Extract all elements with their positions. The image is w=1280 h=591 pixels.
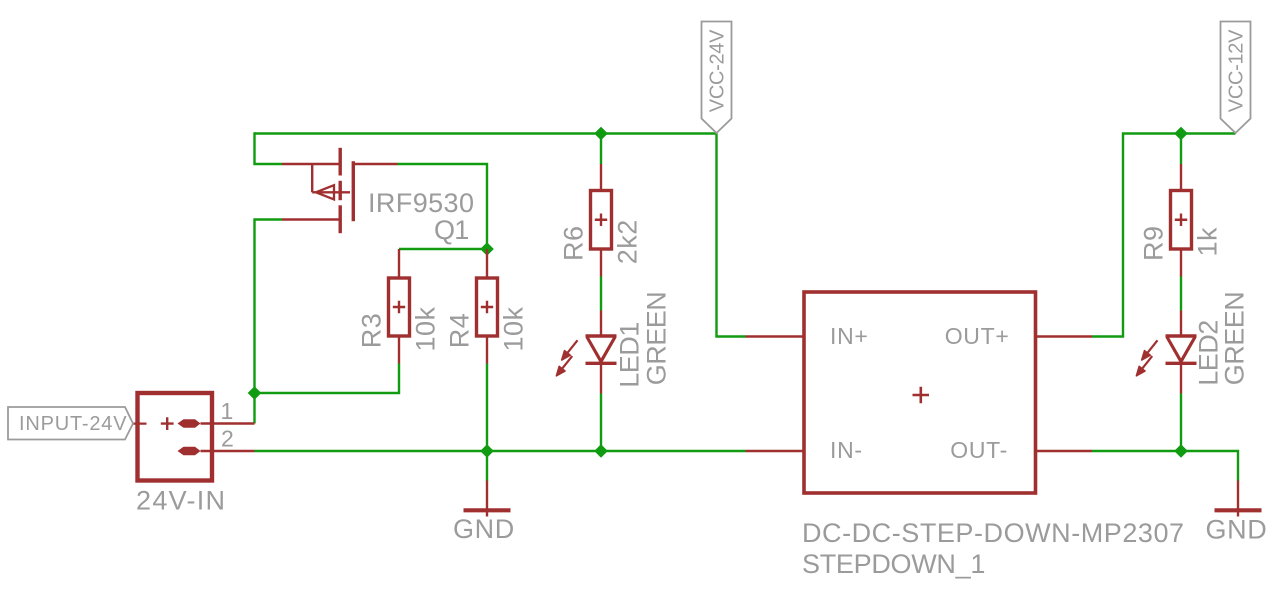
LED LED2 symbol xyxy=(1166,336,1197,363)
resistor R9 bottom pin lead xyxy=(1180,249,1182,277)
resistor R3 bottom pin lead xyxy=(398,336,400,364)
module pin IN- lead xyxy=(746,450,805,452)
wire R3 top lead to node xyxy=(399,248,487,250)
Q1 source pin lead xyxy=(282,163,339,165)
svg-text:R4: R4 xyxy=(445,313,475,349)
wire LED2 cathode to bottom node xyxy=(1180,394,1182,452)
Q1 channel bar bottom segment xyxy=(339,205,342,233)
svg-text:DC-DC-STEP-DOWN-MP2307: DC-DC-STEP-DOWN-MP2307 xyxy=(802,518,1185,548)
svg-text:GREEN: GREEN xyxy=(1220,292,1250,386)
LED LED1 symbol xyxy=(586,336,617,363)
ground symbol xyxy=(1237,481,1239,517)
wire module OUT+ to VCC-12V rail xyxy=(1092,134,1236,337)
diode LED2 cathode pin lead xyxy=(1180,363,1182,393)
resistor R4 bottom pin lead xyxy=(486,336,488,364)
connector left pin stub with cross xyxy=(132,418,147,430)
resistor R9 top pin lead xyxy=(1180,164,1182,191)
resistor R3 top pin lead xyxy=(398,249,400,278)
svg-text:IN-: IN- xyxy=(830,437,863,463)
svg-text:IRF9530: IRF9530 xyxy=(368,188,474,218)
svg-text:R6: R6 xyxy=(559,225,589,261)
wire R9 top stub xyxy=(1180,134,1182,165)
diode LED2 anode pin lead xyxy=(1180,311,1182,337)
svg-text:2: 2 xyxy=(221,426,235,452)
resistor R3 body xyxy=(389,278,410,336)
svg-text:Q1: Q1 xyxy=(434,215,468,245)
svg-text:GREEN: GREEN xyxy=(642,292,672,386)
LED LED1 emission arrows xyxy=(567,340,577,353)
svg-text:2k2: 2k2 xyxy=(613,219,643,264)
module pin IN+ lead xyxy=(746,335,805,337)
supply flag VCC-12V xyxy=(1221,22,1251,134)
resistor R4 top pin lead xyxy=(486,249,488,278)
svg-text:24V-IN: 24V-IN xyxy=(136,486,226,516)
Q1 channel bar middle segment xyxy=(339,181,342,200)
svg-text:INPUT-24V: INPUT-24V xyxy=(19,413,127,435)
svg-text:VCC-24V: VCC-24V xyxy=(707,29,729,112)
wire R6 bottom to LED1 anode xyxy=(600,277,602,311)
junction node R9 top on VCC-12V rail xyxy=(1174,127,1188,141)
junction node LED1/GND bus xyxy=(594,444,608,458)
junction node R4/GND bus xyxy=(480,444,494,458)
junction node R6 top on VCC-24V bus xyxy=(594,127,608,141)
Q1 channel bar top segment xyxy=(339,148,342,176)
resistor R4 origin cross xyxy=(481,301,493,313)
module origin cross xyxy=(913,387,930,403)
svg-text:10k: 10k xyxy=(411,306,441,351)
wire node to R3 bottom lead xyxy=(255,364,400,394)
module STEPDOWN_1 DC-DC-STEP-DOWN-MP2307 body xyxy=(804,292,1036,493)
junction node drain/R3/pin1 xyxy=(248,386,262,400)
supply flag VCC-24V xyxy=(702,22,732,134)
svg-text:R3: R3 xyxy=(357,313,387,349)
wire VCC-24V stem down and into module IN+ xyxy=(717,132,746,336)
connector pin 1 lead xyxy=(201,422,255,424)
wire bottom bus GND net xyxy=(255,450,746,452)
resistor R6 top pin lead xyxy=(600,164,602,191)
junction node LED2/OUT-/GND xyxy=(1174,444,1188,458)
svg-text:1k: 1k xyxy=(1193,227,1223,257)
diode LED1 anode pin lead xyxy=(600,311,602,337)
Q1 bulk arrow head xyxy=(316,185,334,199)
resistor R4 body xyxy=(477,278,498,336)
svg-text:1: 1 xyxy=(221,398,235,424)
wire node to right GND xyxy=(1181,451,1238,481)
LED LED2 emission arrows xyxy=(1147,340,1157,353)
svg-text:OUT-: OUT- xyxy=(950,437,1008,463)
wire Q1 gate to R3/R4 top node xyxy=(398,164,488,249)
connector pin 1 pad glyph xyxy=(178,419,201,427)
svg-text:GND: GND xyxy=(1206,515,1268,545)
resistor R6 body xyxy=(591,191,612,250)
wire R9 bottom to LED2 anode xyxy=(1180,277,1182,311)
wire R4 bottom lead down to bottom bus xyxy=(486,364,488,452)
svg-text:10k: 10k xyxy=(499,306,529,351)
connector polarity + mark xyxy=(161,417,174,430)
connector pin 2 pad glyph xyxy=(178,447,201,455)
svg-text:VCC-12V: VCC-12V xyxy=(1226,29,1248,112)
ground symbol xyxy=(486,481,488,517)
svg-text:GND: GND xyxy=(453,514,515,544)
diode LED1 cathode pin lead xyxy=(600,363,602,393)
resistor R6 bottom pin lead xyxy=(600,249,602,277)
module pin OUT+ lead xyxy=(1036,335,1093,337)
connector pin 2 lead xyxy=(201,450,255,452)
resistor R9 body xyxy=(1171,191,1192,250)
Q1 gate lead to the right xyxy=(355,163,398,165)
svg-text:LED1: LED1 xyxy=(615,322,645,388)
wire module OUT- to LED2 node xyxy=(1092,450,1181,452)
resistor R3 origin cross xyxy=(393,301,405,313)
wire top bus VCC-24V: left corner to VCC flag stem xyxy=(255,132,717,134)
wire GND stub below R4 node xyxy=(486,451,488,481)
transistor Q1 IRF9530 P-MOSFET xyxy=(282,148,398,233)
svg-text:R9: R9 xyxy=(1139,225,1169,261)
wire R6 top stub from top bus xyxy=(600,134,602,165)
junction node gate/R3/R4 xyxy=(480,242,494,256)
resistor R9 origin cross xyxy=(1175,214,1187,226)
wire from Q1 drain lead down to node at connector pin 1 xyxy=(255,220,283,424)
wire LED1 cathode to bottom bus xyxy=(600,394,602,452)
Q1 bulk connection stub xyxy=(312,164,350,192)
resistor R6 origin cross xyxy=(595,214,607,226)
svg-text:OUT+: OUT+ xyxy=(945,323,1010,349)
svg-text:IN+: IN+ xyxy=(830,323,869,349)
Q1 drain pin lead xyxy=(282,218,339,220)
module pin OUT- lead xyxy=(1036,450,1093,452)
connector 24V-IN body xyxy=(138,393,213,481)
svg-text:STEPDOWN_1: STEPDOWN_1 xyxy=(802,549,985,579)
Q1 gate bar xyxy=(352,161,355,221)
wire left vertical from top bus down to Q1 source lead xyxy=(255,132,283,164)
net label INPUT-24V flag xyxy=(8,407,133,440)
